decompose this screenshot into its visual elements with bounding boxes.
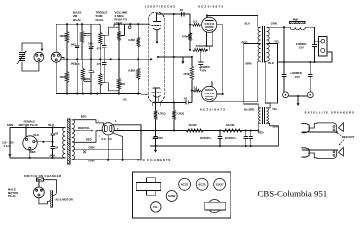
- resistor 6.8M upper: [137, 24, 139, 37]
- transformer T1 secondary winding: [267, 27, 270, 61]
- capacitor .02 coupling lower: [185, 101, 187, 105]
- tube V1 12AX7/ECC83 envelope: [148, 12, 164, 103]
- ground filter: [155, 146, 157, 151]
- wire rectifier pin 3 to filament drop: [113, 124, 141, 126]
- svg-text:BLU/RD: BLU/RD: [244, 107, 254, 111]
- resistor 180K upper: [66, 24, 68, 31]
- svg-text:180K: 180K: [59, 75, 66, 79]
- wire GRN lead to choke: [267, 26, 269, 28]
- svg-text:4MH: 4MH: [293, 17, 299, 21]
- potentiometer bass lower: [82, 81, 84, 94]
- wire input loop top: [22, 43, 42, 51]
- svg-text:2.2KΩ: 2.2KΩ: [176, 112, 185, 116]
- wire AC line top: [10, 126, 64, 128]
- transformer T1 output core: [262, 27, 264, 63]
- svg-text:15V: 15V: [295, 75, 300, 79]
- svg-text:MOTOR: MOTOR: [8, 191, 18, 195]
- svg-text:RED: RED: [81, 114, 87, 118]
- svg-text:.02: .02: [54, 145, 58, 149]
- transformer T3 power core: [67, 119, 70, 164]
- wire plate feed vertical join: [155, 102, 157, 105]
- svg-text:RED DOT: RED DOT: [342, 135, 355, 139]
- svg-text:.02: .02: [183, 96, 187, 100]
- svg-text:DUAL: DUAL: [96, 18, 104, 22]
- wire coupling lower node: [155, 101, 186, 103]
- capacitor 20/450V+: [219, 131, 221, 137]
- svg-text:100MFD: 100MFD: [296, 42, 307, 46]
- svg-text:BLK: BLK: [34, 133, 40, 137]
- wire BLU lead: [257, 16, 259, 28]
- wire RED center tap to T2: [244, 42, 261, 44]
- arrow to filaments: [130, 159, 140, 161]
- svg-text:3.3: 3.3: [193, 20, 197, 24]
- speaker cable 2 plug: [302, 148, 309, 157]
- tube V3 6CZ5 lower: [202, 86, 217, 101]
- wire AC line bottom: [10, 157, 64, 159]
- svg-text:SATELLITE SPEAKERS: SATELLITE SPEAKERS: [305, 111, 356, 115]
- chassis layout box: [132, 172, 230, 218]
- motor coil: [50, 191, 52, 207]
- svg-text:12AX7/ECC83: 12AX7/ECC83: [145, 4, 176, 8]
- potentiometer volume upper: [118, 24, 120, 31]
- wire choke bypass vertical: [283, 27, 285, 62]
- svg-text:.05: .05: [123, 98, 127, 102]
- layout pilot light FIL: [151, 202, 161, 212]
- layout tube EZ80: [166, 191, 177, 202]
- resistor 3.3 grid stopper upper: [193, 23, 201, 26]
- svg-text:RED: RED: [86, 138, 92, 142]
- resistor 3.3 grid stopper lower: [193, 89, 200, 92]
- tube V2 6CZ5 upper: [202, 17, 217, 32]
- wire B+ mid bus: [158, 56, 192, 58]
- triode V1b cathode: [153, 96, 160, 98]
- svg-text:GRN: GRN: [271, 22, 277, 26]
- svg-text:470: 470: [97, 62, 102, 66]
- connector P2 amp input plug: [51, 52, 61, 62]
- ground satellite jacks: [297, 96, 299, 105]
- svg-text:.1: .1: [92, 70, 95, 74]
- svg-text:TO FILAMENTS: TO FILAMENTS: [140, 158, 171, 162]
- svg-text:1K/1W: 1K/1W: [188, 123, 197, 127]
- triode V1a plate: [153, 21, 161, 23]
- potentiometer bass upper: [81, 24, 83, 31]
- speaker cable 1 bottom line: [302, 131, 337, 133]
- svg-text:470: 470: [97, 46, 102, 50]
- wire rectifier filament down: [107, 135, 109, 160]
- svg-text:100: 100: [88, 41, 93, 45]
- capacitor 470 treble upper: [103, 35, 105, 45]
- resistor 6.8M lower: [137, 59, 139, 68]
- transformer T3 primary winding: [63, 127, 66, 157]
- wire plug right pin to caps: [35, 141, 53, 143]
- svg-text:PLUG: PLUG: [8, 194, 16, 198]
- svg-text:12AX7: 12AX7: [216, 182, 224, 186]
- capacitor +10MFD 50V cathode bypass: [200, 50, 202, 62]
- svg-text:110 - 120: 110 - 120: [2, 140, 14, 144]
- resistor 1K/1W second: [223, 129, 243, 132]
- wire V1a plate line: [157, 13, 190, 15]
- wire AC left rail: [9, 127, 11, 157]
- wire treble top corner: [99, 24, 100, 32]
- wire V3 plate line to transformer BRN: [211, 101, 213, 103]
- connector male motor plug: [34, 187, 45, 198]
- svg-text:DUAL: DUAL: [73, 18, 81, 22]
- svg-text:YEL: YEL: [274, 39, 280, 43]
- switch push-to-lock on volume: [128, 26, 131, 29]
- wire T2 top-right lead: [267, 103, 278, 108]
- wire bass top rail: [56, 23, 99, 25]
- jack satellite right: [307, 92, 313, 98]
- wire volume top rail: [114, 24, 148, 26]
- wire HV top lead to rectifier: [74, 120, 104, 126]
- svg-text:270Ω/5W: 270Ω/5W: [196, 44, 208, 48]
- capacitor .02 line lower: [52, 142, 54, 147]
- svg-text:BLK: BLK: [273, 125, 279, 129]
- triode V1a grid: [152, 25, 161, 27]
- svg-text:BLK: BLK: [48, 123, 54, 127]
- layout tube 6CZ5 a: [179, 178, 191, 190]
- wire treble lower pot corner: [99, 86, 100, 94]
- svg-text:MALE: MALE: [8, 187, 16, 191]
- wire filament lead 1: [74, 149, 123, 151]
- speaker cable 1 body: [309, 123, 337, 131]
- connector female motor plug: [23, 136, 37, 150]
- capacitor 470 treble lower: [103, 59, 105, 62]
- wire BRN lead: [257, 61, 259, 101]
- wire plug top pin drop: [25, 127, 27, 136]
- capacitor .1 bass lower: [90, 72, 92, 81]
- speaker cable 2 body: [309, 151, 337, 159]
- capacitor .02 line upper: [52, 127, 54, 133]
- svg-text:RED: RED: [242, 41, 248, 45]
- transformer T2 core: [262, 107, 264, 124]
- layout power transformer: [146, 178, 155, 196]
- svg-text:6.8M: 6.8M: [128, 38, 135, 42]
- layout tube 12AX7: [214, 178, 226, 190]
- resistor 1K/1W first: [186, 129, 203, 132]
- speaker 1 terminals: [333, 125, 335, 127]
- svg-text:MOTOR PLUG: MOTOR PLUG: [19, 123, 39, 127]
- potentiometer treble upper: [99, 32, 102, 44]
- svg-text:6CZ5: 6CZ5: [181, 182, 188, 186]
- resistor 270 ohm 5W cathode: [193, 48, 207, 51]
- svg-text:470K: 470K: [183, 72, 190, 76]
- wire choke to jack: [305, 26, 314, 28]
- potentiometer treble lower: [99, 59, 101, 73]
- svg-text:EZ80: EZ80: [168, 194, 175, 198]
- svg-text:.002: .002: [70, 42, 76, 46]
- wire ground bus tone section: [61, 58, 152, 60]
- wire V3 top stub: [211, 82, 213, 87]
- wire B+ rail: [141, 130, 258, 132]
- resistor 470K grid upper: [189, 25, 191, 33]
- speaker 1 cone: [339, 123, 344, 132]
- svg-text:3.3: 3.3: [193, 85, 197, 89]
- svg-text:FIL.: FIL.: [153, 205, 158, 209]
- svg-text:+100MFD: +100MFD: [290, 71, 302, 75]
- wire HV bottom lead to rectifier: [74, 131, 103, 143]
- wire T2 top-left lead: [257, 104, 259, 108]
- capacitor +20/450V: [155, 131, 157, 137]
- resistor 180K lower: [66, 59, 68, 71]
- svg-text:GRN: GRN: [88, 158, 94, 162]
- wire P2 bottom pin to lower rail: [55, 62, 57, 93]
- wire treble lower wiper stair: [108, 83, 117, 91]
- potentiometer volume lower: [118, 59, 120, 78]
- switch on changer box: [36, 178, 43, 182]
- capacitor .002 upper: [76, 24, 78, 46]
- ground arrow on mid bus: [182, 57, 184, 63]
- svg-text:YEL: YEL: [272, 107, 278, 111]
- wire V3 screen stub: [217, 93, 223, 95]
- capacitor .002 lower: [76, 59, 78, 63]
- wire V2 plate line to output transformer: [207, 15, 258, 17]
- capacitor 40/450V+: [245, 131, 247, 137]
- choke 4MH: [289, 21, 305, 23]
- svg-text:15V: 15V: [299, 46, 304, 50]
- phono cartridge: [20, 52, 25, 54]
- wire rectifier cathode to B+ rail: [114, 130, 141, 132]
- capacitor +100MFD 15V right: [309, 62, 311, 75]
- capacitor 100 bass upper: [90, 33, 92, 46]
- red dot callout dashes: [337, 133, 344, 144]
- svg-text:BLK: BLK: [268, 61, 274, 65]
- svg-text:4.7KΩ: 4.7KΩ: [158, 112, 167, 116]
- wire to triode 2 grid: [141, 93, 142, 96]
- wire plug to switch: [38, 180, 40, 187]
- svg-text:.02: .02: [54, 132, 58, 136]
- svg-text:6CZ5: 6CZ5: [199, 182, 206, 186]
- transformer T3 secondary winding: [72, 120, 75, 160]
- wire between jacks: [288, 95, 307, 97]
- wire V2 cathode leads: [206, 32, 208, 46]
- svg-text:#2 & MOTOR: #2 & MOTOR: [56, 198, 73, 202]
- svg-text:20/450V+: 20/450V+: [200, 136, 212, 140]
- svg-text:6CZ5/6973: 6CZ5/6973: [198, 4, 224, 8]
- svg-text:BLU: BLU: [245, 22, 250, 26]
- jack plate main speaker: [319, 36, 328, 56]
- resistor plate feed 2.2K: [172, 110, 175, 119]
- wire bass lower wiper step: [84, 82, 91, 94]
- resistor plate feed 4.7K: [155, 106, 157, 111]
- svg-text:1K/1W: 1K/1W: [226, 123, 235, 127]
- speaker 2 cone: [339, 147, 344, 156]
- wire ground rail filter: [151, 145, 279, 147]
- svg-text:CBS-Columbia 951: CBS-Columbia 951: [258, 189, 328, 199]
- svg-text:+10MFD: +10MFD: [199, 65, 210, 69]
- resistor 470K grid lower: [191, 57, 193, 66]
- svg-text:GRN: GRN: [88, 145, 94, 149]
- wire P2 to ground bus: [61, 56, 64, 58]
- wire BLK secondary lead: [265, 60, 266, 62]
- speaker 2 terminals: [333, 151, 335, 153]
- tube V4 EZ-80 rectifier: [102, 123, 114, 135]
- capacitor +100MFD 15V left: [283, 62, 285, 75]
- transformer T2 primary winding: [259, 108, 261, 123]
- svg-text:.02: .02: [179, 8, 183, 12]
- wire screen vertical bus: [222, 25, 224, 94]
- svg-text:RED: RED: [30, 150, 36, 154]
- speaker cable 1 plug: [302, 123, 309, 132]
- wire bass wiper step: [84, 24, 91, 33]
- layout tube 6CZ5 b: [196, 178, 208, 190]
- wire input loop bottom: [22, 62, 39, 71]
- svg-text:180K: 180K: [59, 34, 66, 38]
- transformer T2 secondary winding: [267, 108, 269, 123]
- wire V2 plate lead: [206, 16, 208, 18]
- wire T2 bottom-left RED lead to B+: [258, 122, 260, 124]
- svg-text:GRN: GRN: [7, 123, 13, 127]
- triode V1a cathode: [153, 28, 160, 30]
- transformer T1 primary winding: [258, 27, 261, 61]
- wire treble wiper stair: [108, 27, 117, 35]
- wire P2 top pin to bass rail: [55, 24, 57, 52]
- svg-text:6CZ5/6973: 6CZ5/6973: [200, 108, 226, 112]
- wire center tap: [74, 130, 94, 132]
- svg-text:470K: 470K: [182, 35, 189, 39]
- wire rectifier filament down 2: [112, 133, 122, 160]
- connector P1 pickup plug: [34, 52, 44, 62]
- wire YEL lead: [267, 42, 278, 44]
- capacitor output 40/450: [250, 131, 252, 137]
- wire switch to motor: [43, 180, 56, 192]
- wire V2 screen stub: [217, 24, 223, 26]
- svg-text:40/450V+: 40/450V+: [225, 136, 237, 140]
- wire lower rail tone section: [56, 93, 140, 95]
- svg-text:EZ-80: EZ-80: [102, 137, 113, 141]
- jack satellite left: [283, 92, 289, 98]
- wire filament lead 2 bus: [74, 159, 137, 161]
- wire treble pot bottom to bus: [99, 44, 101, 59]
- svg-text:50V: 50V: [202, 68, 207, 72]
- svg-text:.002: .002: [70, 61, 76, 65]
- speaker cable 2 top line: [302, 149, 337, 151]
- capacitor 100MFD 15V series: [312, 44, 316, 46]
- triode V1b grid: [152, 91, 161, 93]
- wire BLU/RD lead horizontal: [244, 103, 258, 105]
- triode V1b plate: [153, 87, 160, 89]
- wire satellite feed rail: [278, 61, 333, 63]
- svg-text:+20/450V: +20/450V: [151, 136, 163, 140]
- svg-text:RED/YEL: RED/YEL: [78, 126, 90, 130]
- wire plug bottom pin down: [29, 150, 31, 158]
- tube V1 heater pins: [152, 103, 154, 106]
- svg-text:BRN: BRN: [246, 61, 252, 65]
- layout speaker: [208, 200, 221, 213]
- svg-text:6.8M: 6.8M: [128, 69, 135, 73]
- wire long B+ feed vertical: [173, 14, 175, 102]
- capacitor .02 coupling upper: [181, 12, 183, 16]
- wire T2 bottom-right BLK lead: [267, 123, 279, 146]
- wire plug bottom to motor: [39, 198, 48, 204]
